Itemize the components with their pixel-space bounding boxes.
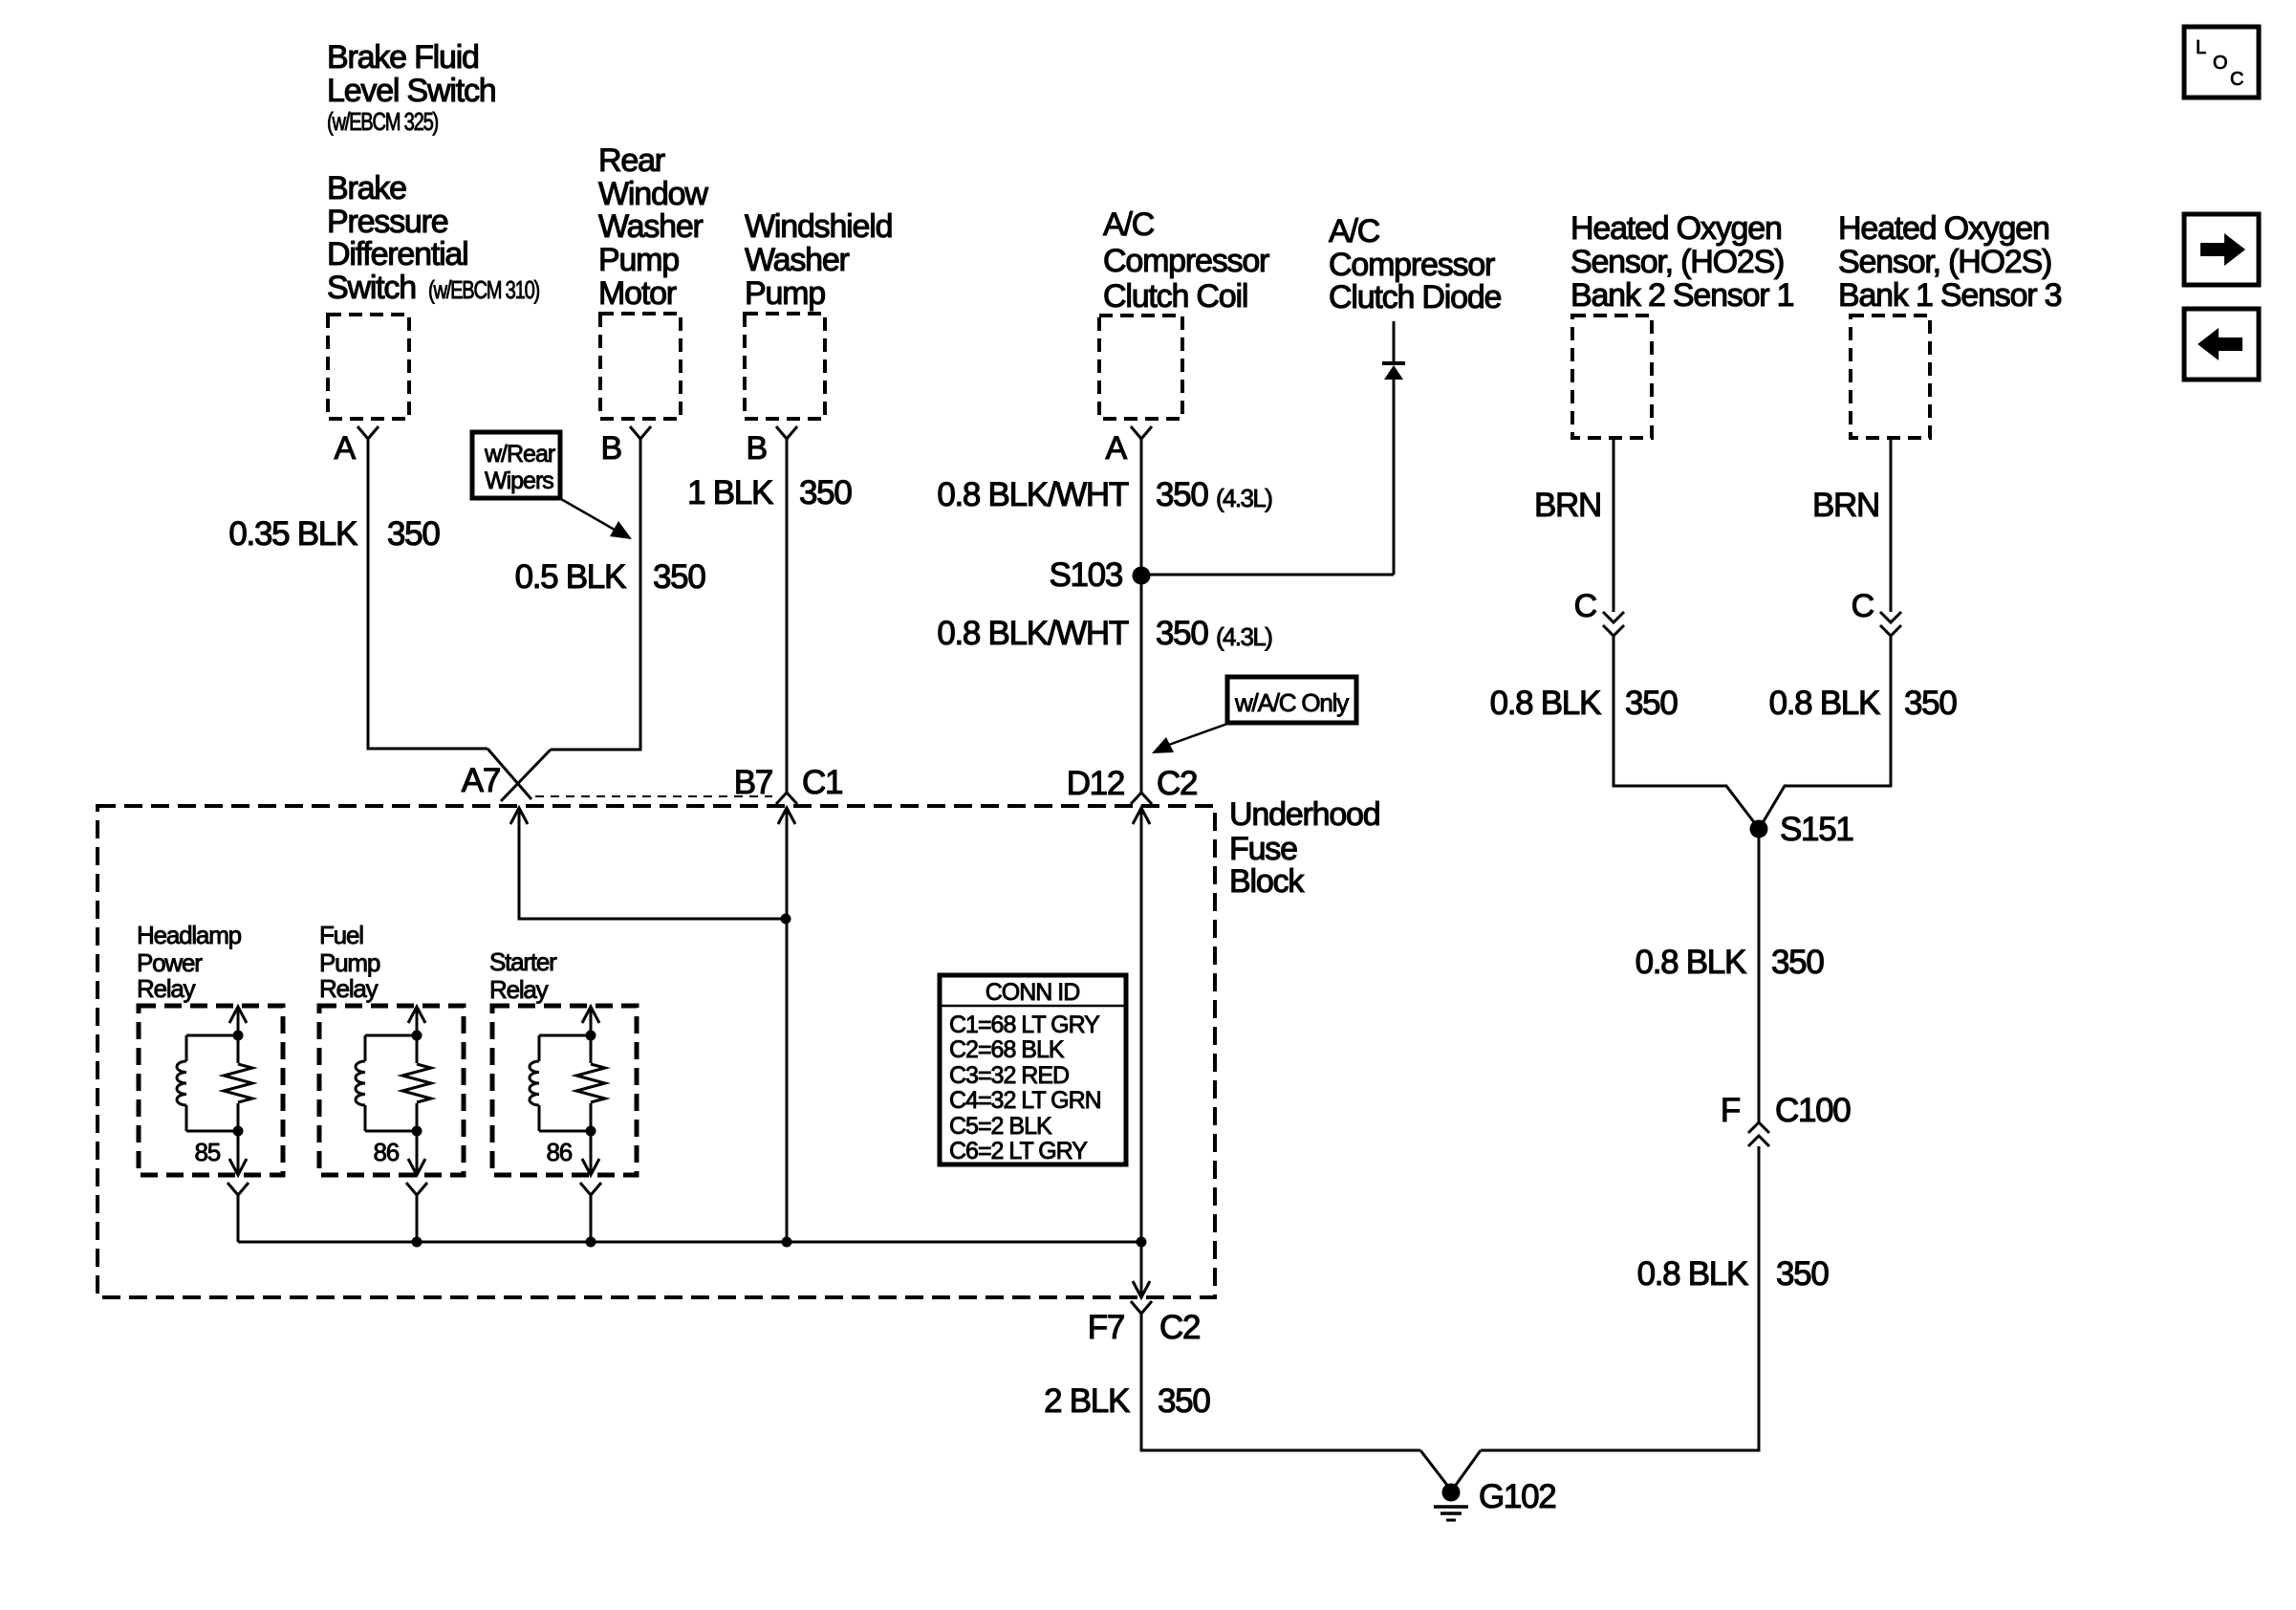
arrow out of Fuel Pump Relay bbox=[408, 1159, 425, 1175]
svg-text:Switch: Switch bbox=[327, 270, 416, 306]
connector terminal under Starter Relay bbox=[580, 1183, 601, 1195]
callout box w/Rear Wipers bbox=[472, 432, 560, 498]
wire: bank1 0.8 BLK down to S151 bbox=[1761, 636, 1891, 826]
svg-text:Bank 2 Sensor 1: Bank 2 Sensor 1 bbox=[1570, 277, 1794, 314]
svg-text:C: C bbox=[1574, 588, 1597, 624]
thin dashed connector line A7 to B7 bbox=[535, 795, 772, 797]
junction dot: fuel pump relay to bus bbox=[412, 1237, 422, 1248]
A/C compressor clutch diode bbox=[1382, 321, 1405, 575]
wire: A/C clutch coil 0.8 BLK/WHT down to S103 bbox=[1140, 439, 1143, 576]
svg-text:C2: C2 bbox=[1159, 1309, 1200, 1346]
svg-text:A/C: A/C bbox=[1103, 207, 1155, 243]
wire: C100 down 0.8 BLK bbox=[1481, 1146, 1759, 1450]
svg-text:CONN ID: CONN ID bbox=[986, 979, 1080, 1006]
wire: Fuel Pump Relay coil feed bbox=[416, 1007, 419, 1175]
coil of Headlamp Power Relay bbox=[177, 1035, 238, 1131]
svg-text:A: A bbox=[335, 430, 357, 467]
svg-text:Sensor, (HO2S): Sensor, (HO2S) bbox=[1570, 244, 1784, 280]
svg-text:Pump: Pump bbox=[745, 275, 825, 312]
svg-text:C3=32 RED: C3=32 RED bbox=[949, 1062, 1069, 1089]
svg-text:w/A/C Only: w/A/C Only bbox=[1234, 688, 1349, 717]
svg-text:A: A bbox=[1106, 430, 1128, 467]
svg-text:Pump: Pump bbox=[598, 242, 679, 278]
resistor of Starter Relay bbox=[576, 1063, 605, 1103]
wire: A7 into block bbox=[519, 808, 786, 919]
svg-text:Heated Oxygen: Heated Oxygen bbox=[1838, 210, 2049, 247]
arrow from w/Rear Wipers box bbox=[561, 499, 632, 539]
svg-text:Block: Block bbox=[1229, 863, 1305, 900]
svg-text:Level Switch: Level Switch bbox=[327, 73, 495, 109]
nav box arrow left bbox=[2184, 309, 2259, 380]
Underhood Fuse Block boundary bbox=[97, 806, 1215, 1297]
wire: rear washer motor 0.5 BLK down/left to A7 bbox=[551, 439, 640, 750]
arrow into Fuel Pump Relay bbox=[408, 1007, 425, 1023]
callout box w/A/C Only bbox=[1227, 677, 1356, 723]
arrow from w/A/C Only box bbox=[1152, 724, 1227, 753]
svg-text:0.5 BLK: 0.5 BLK bbox=[515, 558, 626, 596]
svg-text:Relay: Relay bbox=[489, 975, 549, 1004]
svg-text:Fuse: Fuse bbox=[1229, 831, 1297, 867]
splice S151 bbox=[1750, 820, 1768, 838]
svg-text:B7: B7 bbox=[734, 764, 772, 801]
svg-text:Headlamp: Headlamp bbox=[137, 921, 242, 949]
wire: headlamp relay to bus bbox=[237, 1195, 240, 1242]
junction dot: starter relay to bus bbox=[586, 1237, 596, 1248]
resistor of Headlamp Power Relay bbox=[224, 1063, 252, 1103]
svg-text:Motor: Motor bbox=[598, 275, 677, 312]
label: Brake Fluid Level Switch bbox=[327, 39, 495, 136]
label: Underhood Fuse Block bbox=[1229, 796, 1379, 900]
nav box arrow right bbox=[2184, 214, 2259, 285]
svg-text:Pump: Pump bbox=[319, 948, 380, 977]
svg-text:(4.3L): (4.3L) bbox=[1216, 484, 1272, 512]
svg-text:Windshield: Windshield bbox=[745, 208, 892, 245]
svg-text:C100: C100 bbox=[1775, 1092, 1851, 1129]
svg-text:Bank 1 Sensor 3: Bank 1 Sensor 3 bbox=[1838, 277, 2062, 314]
svg-text:F: F bbox=[1721, 1092, 1740, 1129]
svg-text:2 BLK: 2 BLK bbox=[1044, 1382, 1130, 1420]
svg-text:0.8 BLK: 0.8 BLK bbox=[1769, 685, 1880, 722]
svg-text:Underhood: Underhood bbox=[1229, 796, 1379, 833]
entry arrow below A7 bbox=[510, 808, 528, 824]
label: Brake Pressure Differential Switch bbox=[327, 170, 540, 306]
arrow into Starter Relay bbox=[582, 1007, 599, 1023]
svg-text:C1=68 LT GRY: C1=68 LT GRY bbox=[949, 1012, 1100, 1038]
entry arrow below B7 bbox=[778, 808, 795, 824]
connector terminal under Fuel Pump Relay bbox=[406, 1183, 427, 1195]
wire: starter relay to bus bbox=[590, 1195, 593, 1242]
svg-text:Pressure: Pressure bbox=[327, 204, 448, 240]
junction dot bottom of Headlamp Power Relay bbox=[233, 1126, 244, 1137]
svg-text:C1: C1 bbox=[802, 764, 842, 801]
connector chevron D12/C2 bbox=[1131, 793, 1152, 804]
svg-text:O: O bbox=[2213, 53, 2228, 74]
svg-text:350: 350 bbox=[1156, 476, 1208, 513]
connector box: Brake Pressure Differential Switch bbox=[328, 315, 409, 419]
junction dot top of Headlamp Power Relay bbox=[233, 1031, 244, 1041]
relay box: Headlamp Power Relay bbox=[139, 1006, 283, 1175]
svg-text:Wipers: Wipers bbox=[485, 468, 553, 494]
svg-text:Washer: Washer bbox=[745, 242, 850, 278]
svg-text:w/Rear: w/Rear bbox=[484, 441, 555, 468]
svg-text:Clutch Coil: Clutch Coil bbox=[1103, 278, 1247, 315]
svg-text:350: 350 bbox=[387, 515, 440, 553]
svg-text:350: 350 bbox=[799, 474, 852, 511]
svg-text:G102: G102 bbox=[1479, 1478, 1555, 1515]
arrow into Headlamp Power Relay bbox=[229, 1007, 247, 1023]
wire: Headlamp Power Relay coil feed bbox=[237, 1007, 240, 1175]
wire: F7 down 2 BLK bbox=[1141, 1314, 1420, 1450]
svg-text:0.8 BLK: 0.8 BLK bbox=[1635, 944, 1746, 981]
svg-text:Rear: Rear bbox=[598, 142, 665, 179]
svg-text:Brake: Brake bbox=[327, 170, 406, 207]
connector terminal under Headlamp Power Relay bbox=[227, 1183, 249, 1195]
label: Windshield Washer Pump bbox=[745, 208, 892, 312]
relay: Fuel Pump Relay bbox=[319, 921, 464, 1195]
svg-text:0.8 BLK: 0.8 BLK bbox=[1490, 685, 1601, 722]
relay: Starter Relay bbox=[489, 947, 637, 1195]
svg-text:0.8 BLK/WHT: 0.8 BLK/WHT bbox=[937, 615, 1129, 652]
svg-text:Compressor: Compressor bbox=[1103, 243, 1269, 279]
wire: S103 down to D12 0.8 BLK/WHT bbox=[1140, 576, 1143, 793]
wire: HO2S bank1 BRN down bbox=[1890, 438, 1893, 612]
svg-text:C: C bbox=[1852, 588, 1874, 624]
junction dot: B7 wire to bus bbox=[782, 1237, 792, 1248]
svg-text:1 BLK: 1 BLK bbox=[687, 474, 773, 511]
ground bus inside fuse block bbox=[238, 1241, 1141, 1244]
svg-text:B: B bbox=[747, 430, 767, 467]
junction dot top of Starter Relay bbox=[586, 1031, 596, 1041]
svg-text:Power: Power bbox=[137, 948, 203, 977]
svg-text:(4.3L): (4.3L) bbox=[1216, 622, 1272, 651]
svg-text:C5=2 BLK: C5=2 BLK bbox=[949, 1113, 1052, 1140]
ground symbol G102 bbox=[1434, 1484, 1468, 1521]
wire: B7 down to bus bbox=[786, 808, 789, 1242]
svg-text:Differential: Differential bbox=[327, 236, 468, 272]
svg-text:Heated Oxygen: Heated Oxygen bbox=[1570, 210, 1782, 247]
svg-text:Sensor, (HO2S): Sensor, (HO2S) bbox=[1838, 244, 2051, 280]
label: Heated Oxygen Sensor HO2S Bank 2 Sensor 1 bbox=[1570, 210, 1794, 314]
arrow out of Starter Relay bbox=[582, 1159, 599, 1175]
svg-text:350: 350 bbox=[653, 558, 705, 596]
connector terminal under A/C clutch coil bbox=[1131, 426, 1152, 439]
svg-text:F7: F7 bbox=[1088, 1309, 1124, 1346]
connector box: HO2S Bank 2 Sensor 1 bbox=[1572, 315, 1652, 438]
coil of Fuel Pump Relay bbox=[356, 1035, 417, 1131]
relay: Headlamp Power Relay bbox=[137, 921, 283, 1195]
svg-text:350: 350 bbox=[1158, 1382, 1210, 1420]
svg-text:L: L bbox=[2196, 37, 2206, 58]
coil of Starter Relay bbox=[530, 1035, 591, 1131]
svg-text:(w/EBCM 310): (w/EBCM 310) bbox=[428, 275, 540, 304]
wire: D12 down to bus and out bottom bbox=[1140, 808, 1143, 1297]
svg-text:Starter: Starter bbox=[489, 947, 557, 976]
svg-text:BRN: BRN bbox=[1534, 487, 1601, 524]
junction dot A7 wire to B7 wire bbox=[781, 914, 791, 925]
connector box: HO2S Bank 1 Sensor 3 bbox=[1851, 315, 1930, 438]
relay box: Fuel Pump Relay bbox=[319, 1006, 464, 1175]
svg-text:D12: D12 bbox=[1067, 765, 1124, 802]
inline connector C (bank1) bbox=[1880, 612, 1901, 636]
connector box: A/C Compressor Clutch Coil bbox=[1099, 315, 1182, 419]
svg-text:BRN: BRN bbox=[1812, 487, 1879, 524]
svg-text:S151: S151 bbox=[1780, 811, 1853, 848]
connector box: Windshield Washer Pump bbox=[745, 314, 825, 419]
wire: bank2 0.8 BLK down to S151 bbox=[1614, 636, 1757, 826]
label: A/C Compressor Clutch Diode bbox=[1329, 213, 1502, 315]
exit arrow above F7 bbox=[1133, 1281, 1150, 1297]
resistor of Fuel Pump Relay bbox=[402, 1063, 431, 1103]
svg-text:Compressor: Compressor bbox=[1329, 247, 1495, 283]
svg-text:Clutch Diode: Clutch Diode bbox=[1329, 279, 1502, 315]
svg-text:A/C: A/C bbox=[1329, 213, 1380, 250]
svg-text:0.35 BLK: 0.35 BLK bbox=[228, 515, 357, 553]
svg-text:C4=32 LT GRN: C4=32 LT GRN bbox=[949, 1087, 1101, 1114]
svg-text:Relay: Relay bbox=[319, 974, 379, 1003]
junction dot: D12 wire to bus bbox=[1137, 1237, 1147, 1248]
connector box: Rear Window Washer Pump Motor bbox=[600, 314, 681, 419]
svg-text:350: 350 bbox=[1904, 685, 1957, 722]
connector terminal under rear washer motor bbox=[630, 426, 651, 439]
label: A/C Compressor Clutch Coil bbox=[1103, 207, 1269, 315]
inline connector C (bank2) bbox=[1603, 612, 1624, 636]
svg-text:0.8 BLK: 0.8 BLK bbox=[1637, 1255, 1748, 1293]
svg-text:(w/EBCM 325): (w/EBCM 325) bbox=[327, 107, 439, 136]
svg-text:C: C bbox=[2230, 69, 2243, 90]
LOC box bbox=[2184, 27, 2259, 98]
connector terminal under brake switch bbox=[357, 426, 379, 439]
wire: windshield washer pump 1 BLK down to B7 bbox=[786, 439, 789, 793]
svg-text:350: 350 bbox=[1776, 1255, 1829, 1293]
svg-text:Window: Window bbox=[598, 176, 708, 212]
wire: S103 to clutch diode bbox=[1141, 574, 1394, 577]
wire: S151 down 0.8 BLK bbox=[1758, 829, 1761, 1122]
label: Rear Window Washer Pump Motor bbox=[598, 142, 708, 312]
connector terminal under windshield washer pump bbox=[776, 426, 797, 439]
junction dot top of Fuel Pump Relay bbox=[412, 1031, 422, 1041]
wire: brake switch 0.35 BLK down/right to A7 bbox=[368, 439, 487, 749]
svg-text:C2: C2 bbox=[1157, 765, 1197, 802]
connector F7 / C2 below fuse block bbox=[1131, 1301, 1152, 1314]
wire: Starter Relay coil feed bbox=[590, 1007, 593, 1175]
svg-text:350: 350 bbox=[1771, 944, 1824, 981]
ground V right arm bbox=[1454, 1450, 1481, 1488]
junction dot bottom of Fuel Pump Relay bbox=[412, 1126, 422, 1137]
svg-text:Washer: Washer bbox=[598, 208, 704, 245]
svg-text:Relay: Relay bbox=[137, 974, 196, 1003]
relay box: Starter Relay bbox=[492, 1006, 637, 1175]
svg-text:350: 350 bbox=[1625, 685, 1678, 722]
svg-text:A7: A7 bbox=[462, 762, 500, 799]
splice X at A7 bbox=[487, 749, 531, 799]
splice S103 bbox=[1133, 567, 1151, 585]
arrow out of Headlamp Power Relay bbox=[229, 1159, 247, 1175]
wire: HO2S bank2 BRN down bbox=[1613, 438, 1615, 612]
svg-text:86: 86 bbox=[373, 1138, 399, 1166]
svg-text:0.8 BLK/WHT: 0.8 BLK/WHT bbox=[937, 476, 1129, 513]
connector chevron B7/C1 bbox=[776, 793, 797, 804]
wire: fuel pump relay to bus bbox=[416, 1195, 419, 1242]
svg-text:B: B bbox=[601, 430, 621, 467]
CONN ID table bbox=[940, 975, 1126, 1164]
svg-text:350: 350 bbox=[1156, 615, 1208, 652]
svg-text:C6=2 LT GRY: C6=2 LT GRY bbox=[949, 1138, 1088, 1164]
svg-text:S103: S103 bbox=[1049, 556, 1122, 594]
entry arrow below D12 bbox=[1133, 808, 1150, 824]
svg-text:86: 86 bbox=[546, 1138, 572, 1166]
ground V left arm bbox=[1420, 1450, 1449, 1488]
junction dot bottom of Starter Relay bbox=[586, 1126, 596, 1137]
svg-text:Fuel: Fuel bbox=[319, 921, 363, 949]
svg-text:85: 85 bbox=[194, 1138, 220, 1166]
svg-text:C2=68 BLK: C2=68 BLK bbox=[949, 1036, 1065, 1063]
svg-text:Brake Fluid: Brake Fluid bbox=[327, 39, 479, 76]
label: Heated Oxygen Sensor HO2S Bank 1 Sensor 3 bbox=[1838, 210, 2062, 314]
